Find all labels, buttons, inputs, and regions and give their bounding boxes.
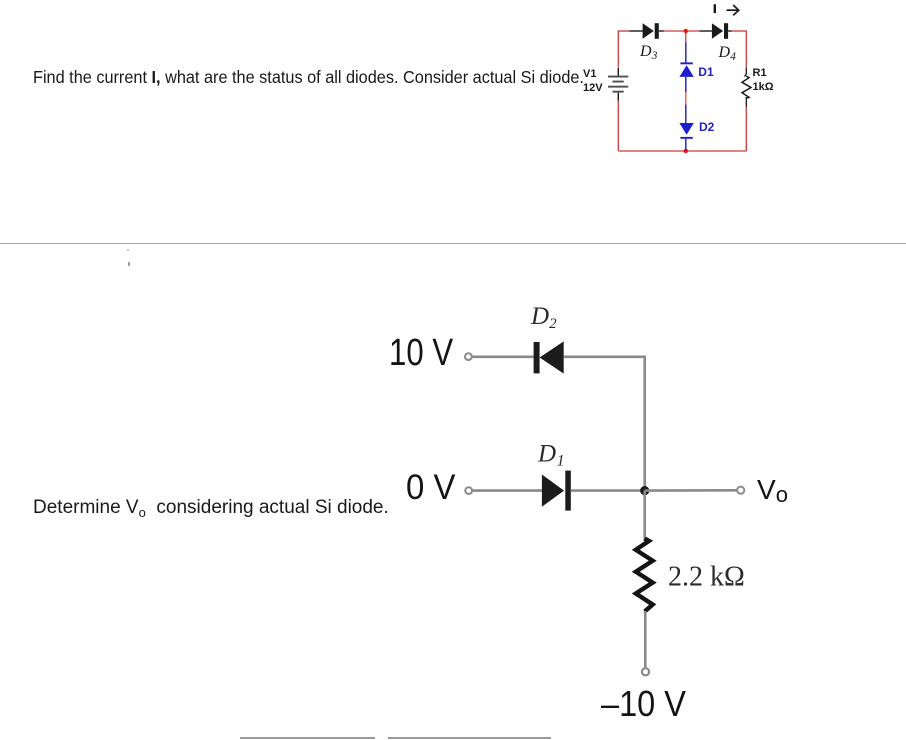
terminal 0V (open circle) — [465, 487, 472, 494]
bottom rule 2 — [388, 737, 551, 739]
svg-text:D2: D2 — [699, 120, 715, 134]
diode D3 — [643, 23, 659, 39]
label R1 — [753, 67, 767, 79]
diode D4 — [712, 23, 728, 39]
svg-text:D1: D1 — [537, 441, 565, 470]
wire: middle branch red segment mid — [685, 92, 687, 106]
wire: left vertical red (top part) — [617, 31, 619, 67]
node junction bottom (red dot) — [684, 149, 688, 153]
svg-text:D2: D2 — [530, 303, 557, 332]
faint separator line — [0, 243, 906, 244]
wire: diode D1 to junction — [571, 489, 645, 492]
diode D1 (blue, pointing up) — [679, 62, 693, 77]
wire: blue segment below D2 — [685, 139, 687, 151]
svg-text:D3: D3 — [639, 43, 658, 62]
terminal 10V (open circle) — [465, 353, 472, 360]
terminal Vo (open circle) — [737, 487, 744, 494]
problem 2 statement text — [33, 497, 389, 520]
svg-text:12V: 12V — [583, 82, 603, 94]
node junction (black dot) — [640, 486, 649, 495]
label D1 — [698, 65, 714, 79]
diode D2 (blue, pointing down) — [679, 123, 693, 139]
wire: 10V input to diode D2 — [472, 355, 534, 358]
label V1 — [583, 68, 596, 80]
svg-text:D1: D1 — [698, 65, 714, 79]
battery V1 plates — [608, 76, 628, 93]
wire: 0V input to diode D1 — [472, 489, 542, 492]
label 0 V — [406, 468, 455, 508]
label 2.2 kOhm — [668, 562, 745, 593]
label 12V — [583, 82, 603, 94]
svg-text:D4: D4 — [718, 44, 737, 63]
label D3 — [639, 43, 658, 62]
wire: junction to Vo terminal — [645, 489, 737, 492]
label Vo — [757, 474, 788, 508]
wire: black lead into D4 — [700, 30, 712, 32]
wire: blue segment between mid and D2 — [685, 105, 687, 123]
label 1kOhm — [753, 81, 774, 93]
battery V1 bottom lead — [617, 93, 619, 101]
resistor 2.2k zigzag — [636, 539, 653, 612]
svg-text:V1: V1 — [583, 68, 596, 80]
faint speck 1 — [127, 249, 129, 251]
circuit 1 schematic — [560, 0, 840, 170]
wire: left vertical red (bottom part) — [617, 100, 619, 151]
wire: middle branch red stub top — [685, 31, 687, 43]
current direction arrow — [727, 5, 739, 15]
wire: junction down to resistor — [643, 491, 646, 541]
label I (current) — [714, 4, 716, 13]
label D2 (circuit 2) — [530, 303, 557, 332]
resistor R1 zigzag — [742, 76, 751, 98]
wire: black lead out of D3 — [659, 30, 664, 32]
wire: bottom red — [618, 150, 746, 152]
label D1 (circuit 2) — [537, 441, 565, 470]
bottom rule 1 — [240, 737, 375, 739]
wire: black lead out of D4 — [728, 30, 731, 32]
svg-text:R1: R1 — [753, 67, 767, 79]
circuit 2 schematic — [370, 290, 810, 730]
battery V1 top lead — [617, 68, 619, 77]
label -10 V — [601, 683, 686, 725]
terminal -10V (open circle) — [642, 668, 649, 675]
wire: right vertical red segments — [745, 31, 747, 151]
problem 1 statement text — [33, 67, 584, 88]
wire: resistor to bottom terminal — [644, 611, 647, 667]
wire: blue segment between D1 and mid — [685, 77, 687, 92]
resistor R1 top lead — [745, 68, 747, 77]
label 10 V — [389, 332, 453, 375]
diode D2 circuit2 (pointing left) — [534, 341, 564, 373]
svg-text:2.2 kΩ: 2.2 kΩ — [668, 562, 745, 593]
faint speck 2 — [128, 262, 130, 266]
resistor R1 bottom lead — [745, 97, 747, 107]
label D4 — [718, 44, 737, 63]
diode D1 circuit2 (pointing right) — [542, 471, 571, 511]
wire: black lead into D3 — [630, 30, 643, 32]
label D2 — [699, 120, 715, 134]
wire: top red segments — [618, 30, 747, 32]
node junction top (red dot) — [684, 29, 688, 33]
svg-text:1kΩ: 1kΩ — [753, 81, 774, 93]
wire: blue segment above D1 — [685, 43, 687, 63]
wire: diode D2 to corner then down — [564, 357, 645, 491]
